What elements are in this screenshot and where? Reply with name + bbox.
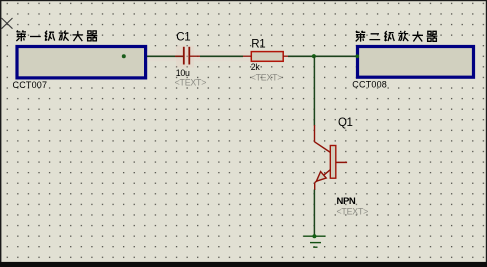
emitter arrow xyxy=(316,172,326,182)
window frame left xyxy=(0,0,1,267)
subcircuit CCT007 box xyxy=(17,47,146,78)
emitter diagonal xyxy=(315,170,331,183)
svg-text:2k: 2k xyxy=(251,62,261,72)
emitter pin xyxy=(314,183,316,190)
wire Q1 emitter to ground xyxy=(313,190,315,237)
wire highlight tint xyxy=(147,51,250,62)
wire CCT007 to C1 xyxy=(147,55,183,57)
svg-text:C1: C1 xyxy=(176,31,190,43)
svg-text:NPN: NPN xyxy=(337,196,356,207)
base bar xyxy=(330,146,336,179)
wire R1 to CCT008 xyxy=(288,55,357,57)
svg-text:<TEXT>: <TEXT> xyxy=(175,78,207,88)
transistor Q1 xyxy=(315,125,348,190)
junction node xyxy=(312,54,316,58)
ground junction dot xyxy=(312,234,316,238)
wire C1 to R1 xyxy=(200,55,243,57)
svg-text:<TEXT>: <TEXT> xyxy=(337,207,369,217)
collector diagonal xyxy=(315,142,331,153)
svg-text:CCT008: CCT008 xyxy=(352,80,387,90)
window frame bottom bar xyxy=(0,262,487,267)
node pin dot at CCT008 xyxy=(356,54,360,58)
resistor R1 xyxy=(243,52,288,62)
window frame right xyxy=(486,0,487,267)
window frame top xyxy=(0,0,487,1)
wire junction down to Q1 collector xyxy=(313,56,315,125)
base pin xyxy=(336,161,347,163)
svg-text:R1: R1 xyxy=(251,39,265,51)
ground symbol xyxy=(304,236,326,247)
label title 第一级放大器 (first-stage amplifier) xyxy=(16,30,97,41)
svg-text:CCT007: CCT007 xyxy=(13,80,48,90)
collector pin vertical xyxy=(314,125,316,142)
svg-text:10u: 10u xyxy=(176,68,190,78)
capacitor C1 xyxy=(175,47,200,65)
svg-text:<TEXT>: <TEXT> xyxy=(251,72,283,82)
subcircuit CCT008 box xyxy=(358,47,474,78)
svg-text:Q1: Q1 xyxy=(338,117,353,129)
label title 第二级放大器 (second-stage amplifier) xyxy=(356,31,438,42)
origin marker X xyxy=(2,18,13,29)
node: internal pin dot of CCT007 xyxy=(122,54,126,58)
